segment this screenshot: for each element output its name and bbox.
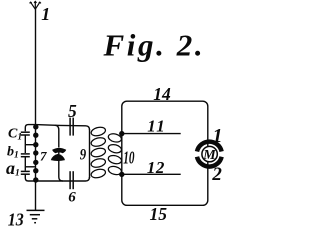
contact arm 11 xyxy=(122,133,181,135)
svg-text:1: 1 xyxy=(41,4,50,24)
svg-text:1: 1 xyxy=(213,125,223,147)
ground symbol 13 xyxy=(27,210,45,222)
rung wire between C1 and b1 xyxy=(25,144,35,146)
svg-text:10: 10 xyxy=(123,147,134,167)
svg-text:2: 2 xyxy=(211,164,222,185)
contact dot 2 xyxy=(33,133,38,138)
contact dot 1 xyxy=(33,124,38,129)
svg-text:14: 14 xyxy=(153,84,171,104)
inductor coil 9 xyxy=(90,126,106,179)
detector 7 lower electrode xyxy=(51,154,65,161)
main line with contact dots xyxy=(35,125,37,181)
svg-text:13: 13 xyxy=(8,210,24,229)
wire column bottom corner to bottom wire xyxy=(25,174,35,181)
antenna 1 xyxy=(30,1,41,9)
svg-text:12: 12 xyxy=(147,158,165,177)
svg-text:5: 5 xyxy=(68,101,77,121)
junction dot lower (coil 10 / contact 12) xyxy=(119,172,124,177)
wire column segment b1-a1 xyxy=(24,157,26,171)
inductor coil 10 xyxy=(107,132,122,175)
contact dot 7 xyxy=(33,177,38,182)
contact dot 5 xyxy=(33,160,38,165)
wire from junction left to capacitor column xyxy=(25,125,35,132)
svg-text:7: 7 xyxy=(40,148,47,163)
capacitor b1 xyxy=(21,154,30,157)
top wire from junction to tuned loop xyxy=(36,125,90,130)
svg-text:11: 11 xyxy=(147,116,165,135)
svg-text:15: 15 xyxy=(150,204,168,224)
detector 7 upper electrode xyxy=(52,148,66,153)
capacitor C1 xyxy=(21,132,30,135)
motor M field arcs xyxy=(197,142,222,167)
junction dot upper (coil 10 / contact 11) xyxy=(119,131,124,136)
svg-text:6: 6 xyxy=(68,189,76,205)
contact dot 6 xyxy=(33,168,38,173)
detector 7 branch wire xyxy=(55,125,63,181)
capacitor 6 xyxy=(70,171,73,189)
motor M armature circle xyxy=(202,146,217,161)
rung wire between b1 and a1 xyxy=(25,166,35,168)
wire column segment C1-b1 xyxy=(24,135,26,153)
bottom wire of tuned loop xyxy=(36,177,90,181)
svg-text:M: M xyxy=(202,148,216,163)
capacitor a1 xyxy=(21,171,30,174)
contact dot 4 xyxy=(33,150,38,155)
capacitor 5 xyxy=(70,118,73,136)
relay circuit rectangle (conductors 14,15) xyxy=(122,101,208,205)
contact arm 12 xyxy=(122,173,181,175)
svg-text:Fig. 2.: Fig. 2. xyxy=(103,28,206,63)
right side of tuned loop / coil 9 axis xyxy=(89,129,91,178)
ground lead wire xyxy=(35,181,37,210)
contact dot 3 xyxy=(33,142,38,147)
antenna lead wire (main vertical line) xyxy=(35,9,37,126)
svg-text:9: 9 xyxy=(80,147,86,164)
